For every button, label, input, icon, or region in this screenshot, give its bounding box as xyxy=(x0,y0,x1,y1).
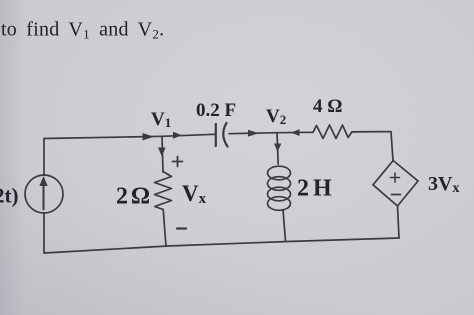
svg-text:V2: V2 xyxy=(266,106,286,127)
svg-text:Vx: Vx xyxy=(182,181,207,207)
svg-text:0.2 F: 0.2 F xyxy=(196,100,236,121)
svg-text:4 Ω: 4 Ω xyxy=(313,96,342,117)
svg-text:2 Ω: 2 Ω xyxy=(116,184,150,210)
svg-text:3Vx: 3Vx xyxy=(428,173,459,196)
svg-text:2 H: 2 H xyxy=(297,176,332,202)
svg-text:2t): 2t) xyxy=(0,184,19,208)
svg-text:V1: V1 xyxy=(151,109,171,130)
svg-text:to find V1 and V2.: to find V1 and V2. xyxy=(1,19,164,42)
